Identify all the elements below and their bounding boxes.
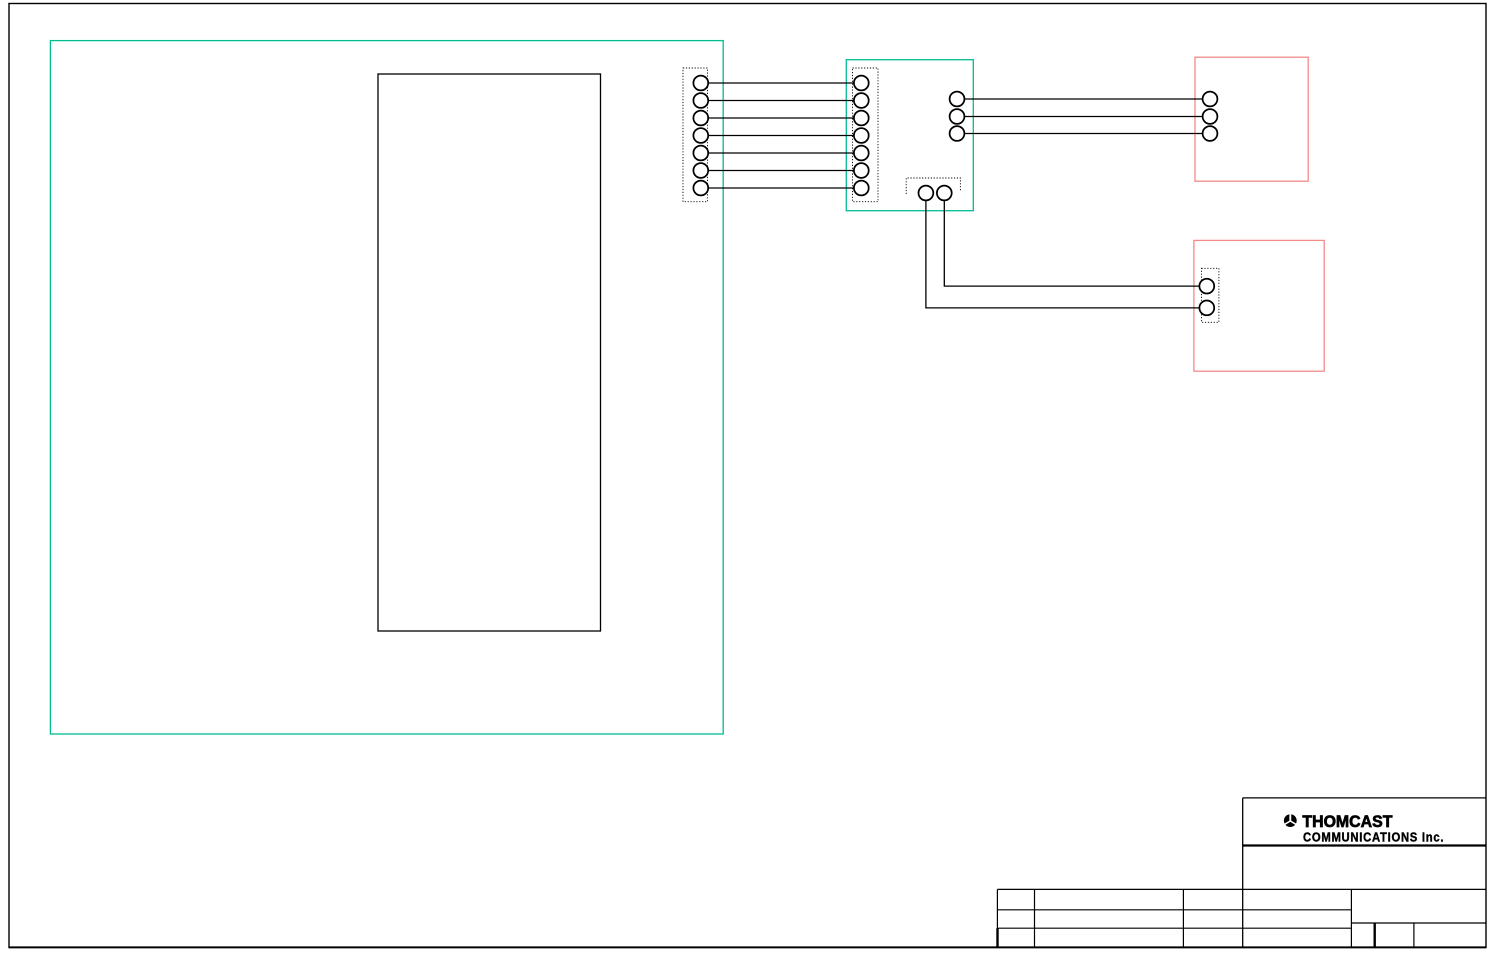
connector J2 pins xyxy=(854,76,869,196)
svg-text:COMMUNICATIONS Inc.: COMMUNICATIONS Inc. xyxy=(1303,830,1444,845)
wire: pin2 J1 to pin2 J2 xyxy=(708,100,854,102)
connector J1 shell (dotted) xyxy=(683,68,708,202)
wire: pin6 J1 to pin6 J2 xyxy=(708,170,854,172)
block: remote unit 1 (pink outline) xyxy=(1195,57,1308,181)
wire: pin4 J1 to pin4 J2 xyxy=(708,135,854,137)
connector J3 shell (dotted, open bottom) xyxy=(906,178,960,194)
connector J4 shell (dotted) xyxy=(1202,268,1219,322)
wire: interface out 3 to remote unit 1 pin 3 xyxy=(964,133,1203,135)
remote unit 1 input pins xyxy=(1203,92,1218,141)
wire: pin1 J1 to pin1 J2 xyxy=(708,82,854,84)
svg-text:THOMCAST: THOMCAST xyxy=(1302,813,1392,831)
logo: THOMCAST icon xyxy=(1284,813,1297,827)
interface unit output pins xyxy=(950,92,965,141)
wire: J3 pin1 to remote unit 2 lower pin xyxy=(926,201,1200,308)
block: transmitter cabinet (teal outline) xyxy=(50,41,723,734)
wire: interface out 1 to remote unit 1 pin 1 xyxy=(964,98,1203,100)
wire: pin5 J1 to pin5 J2 xyxy=(708,152,854,154)
wire: pin7 J1 to pin7 J2 xyxy=(708,187,854,189)
block: interface unit (teal outline) xyxy=(846,60,973,211)
block: equipment rack (inner black rectangle) xyxy=(378,74,601,631)
connector J2 shell (dotted) xyxy=(853,68,879,202)
wire: pin3 J1 to pin3 J2 xyxy=(708,117,854,119)
block: remote unit 2 (pink outline) xyxy=(1194,240,1324,371)
wire: interface out 2 to remote unit 1 pin 2 xyxy=(964,116,1203,118)
title block: company logo cell xyxy=(1243,798,1487,948)
frame bottom edge (thick) xyxy=(9,946,1486,948)
connector J4 pins xyxy=(1199,279,1214,316)
connector J3 pins xyxy=(919,186,952,201)
connector J1 pins xyxy=(693,76,708,196)
title block: revision table xyxy=(997,889,1486,947)
wire: J3 pin2 to remote unit 2 upper pin xyxy=(944,201,1199,287)
